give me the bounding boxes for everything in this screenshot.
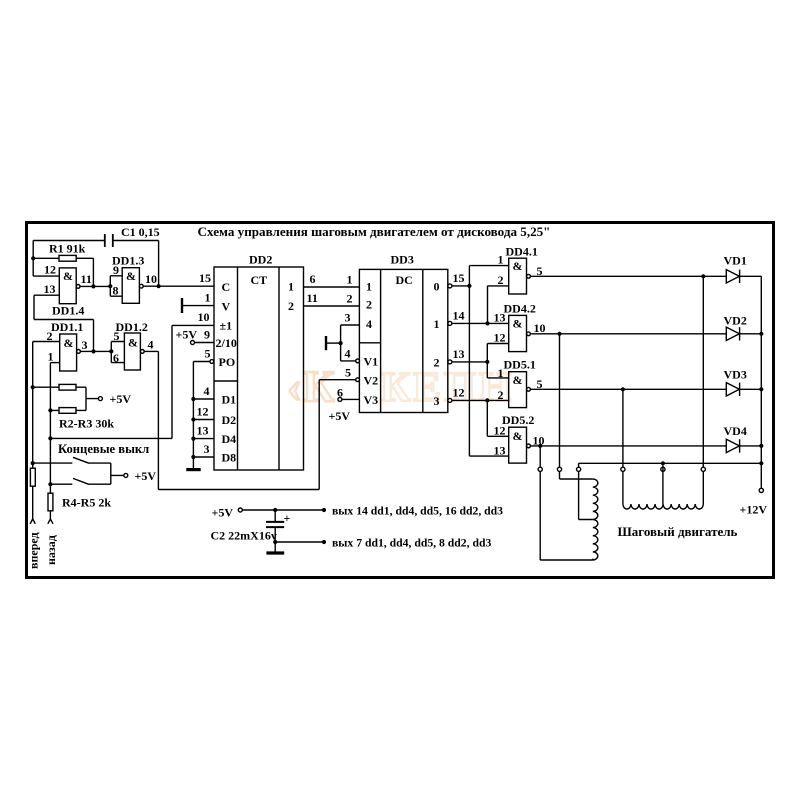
svg-text:DD1.1: DD1.1	[51, 320, 83, 334]
svg-text:3: 3	[345, 311, 351, 325]
DD1.3 output inversion circle	[139, 284, 143, 288]
resistor R2	[59, 384, 76, 390]
svg-text:6: 6	[310, 272, 316, 286]
terminal +5V C2	[238, 508, 242, 512]
svg-text:1: 1	[205, 291, 211, 305]
motor terminal 4	[621, 467, 625, 471]
node VD4 tap junction	[538, 444, 542, 448]
terminal +5V DD3 pin6	[338, 397, 342, 401]
DD4.1 output inversion circle	[527, 274, 531, 278]
wire winding B center lead	[662, 465, 664, 504]
decoder DD3 body	[359, 269, 447, 412]
wire DD3 pin3 bracket	[341, 325, 360, 343]
wire DD2 pin9 from +5V	[195, 342, 215, 344]
svg-text:12: 12	[453, 386, 465, 400]
svg-text:DD1.4: DD1.4	[52, 304, 84, 318]
motor terminal 5	[661, 467, 665, 471]
switch SA1 vpered	[33, 457, 111, 463]
svg-text:&: &	[63, 269, 73, 283]
svg-text:DD5.2: DD5.2	[502, 413, 534, 427]
svg-text:1: 1	[366, 280, 372, 294]
svg-text:2: 2	[498, 273, 504, 287]
wire VD4 tap down	[539, 446, 541, 467]
svg-text:VD1: VD1	[724, 254, 747, 268]
DD1.1 output inversion circle	[77, 350, 81, 354]
wire DD2 D8 pin3	[193, 456, 214, 458]
node DD1.1 out junction	[91, 349, 95, 353]
svg-text:+5V: +5V	[110, 392, 132, 406]
svg-text:+: +	[284, 511, 291, 525]
svg-text:D4: D4	[222, 432, 237, 446]
node bus VD4 junction	[759, 444, 763, 448]
svg-text:3: 3	[434, 394, 440, 408]
wire DD3 pin13 net C	[452, 344, 509, 378]
svg-text:4: 4	[366, 317, 372, 331]
svg-text:1: 1	[48, 350, 54, 364]
wire DD5.1 out to VD3	[530, 388, 726, 390]
DD5.2 output inversion circle	[527, 444, 531, 448]
svg-text:1: 1	[498, 253, 504, 267]
wire DD5.2 out to VD4	[530, 445, 726, 447]
node switch2 junction	[48, 482, 52, 486]
svg-text:вых 7 dd1, dd4, dd5, 8 dd2,: вых 7 dd1, dd4, dd5, 8 dd2, dd3	[332, 537, 491, 550]
svg-text:13: 13	[197, 424, 209, 438]
svg-text:9: 9	[204, 328, 210, 342]
svg-text:PO: PO	[219, 355, 236, 369]
svg-text:C: C	[222, 280, 231, 294]
svg-text:+12V: +12V	[740, 503, 768, 517]
svg-text:11: 11	[81, 272, 92, 286]
svg-text:VD3: VD3	[724, 368, 747, 382]
capacitor C1	[105, 234, 113, 247]
node D2 bus junction	[191, 417, 195, 421]
svg-text:5: 5	[205, 347, 211, 361]
wire DD2 D1 pin4	[193, 398, 214, 400]
op-amp DD1.3 body	[122, 268, 139, 304]
svg-text:14: 14	[453, 309, 465, 323]
op-amp DD4.1 body	[509, 258, 527, 294]
svg-text:+5V: +5V	[212, 506, 234, 520]
wire R1 left	[33, 257, 59, 259]
DD3 inner column lines	[381, 269, 423, 412]
diode VD4	[726, 439, 761, 452]
svg-text:R2-R3 30k: R2-R3 30k	[59, 417, 114, 431]
node net D junction	[485, 398, 489, 402]
op-amp DD1.4 body	[59, 268, 76, 304]
DD2 PO inversion circle	[210, 360, 214, 364]
wire winding B right lead	[702, 471, 704, 504]
resistor R4	[30, 468, 35, 486]
svg-text:15: 15	[453, 271, 465, 285]
DD3 output 2 inversion circle	[448, 360, 452, 364]
svg-text:6: 6	[337, 386, 343, 400]
wire C2 top stem	[274, 510, 276, 521]
wire DD1.2 input bracket pins 5 6	[111, 342, 124, 363]
node DD1.2 input junction	[109, 349, 113, 353]
wire DD2 out pin6 to DD3 pin1	[304, 286, 360, 288]
node net C junction	[485, 360, 489, 364]
svg-text:VD4: VD4	[724, 424, 747, 438]
svg-text:6: 6	[113, 351, 119, 365]
wire R2 R3 to +5V tap	[33, 387, 99, 410]
motor terminal 6	[701, 467, 705, 471]
svg-text:DD1.2: DD1.2	[116, 320, 148, 334]
svg-text:вых 14 dd1, dd4, dd5, 16 dd2,: вых 14 dd1, dd4, dd5, 16 dd2, dd3	[332, 505, 503, 518]
resistor R3	[59, 408, 76, 414]
node DD3 bracket junction	[339, 341, 343, 345]
node D1 bus junction	[191, 397, 195, 401]
svg-text:+5V: +5V	[329, 409, 351, 423]
wire nazad tap to plus-minus-1	[50, 325, 214, 438]
wire C2 bottom stem	[274, 528, 276, 552]
svg-text:5: 5	[345, 366, 351, 380]
DD1.2 output inversion circle	[140, 350, 144, 354]
svg-text:13: 13	[494, 311, 506, 325]
svg-text:D8: D8	[222, 451, 237, 465]
svg-text:13: 13	[44, 282, 56, 296]
svg-text:назад: назад	[44, 535, 58, 565]
wire winding A top lead	[560, 471, 593, 479]
svg-text:&: &	[128, 336, 138, 350]
svg-text:+5V: +5V	[135, 469, 157, 483]
ground bar DD2 bus	[186, 468, 200, 471]
node C2 bottom junction	[273, 540, 277, 544]
node net A junction	[467, 284, 471, 288]
resistor R1	[59, 255, 76, 261]
wire C1 top-left net	[33, 241, 158, 287]
svg-text:&: &	[126, 269, 136, 283]
op-amp DD5.2 body	[509, 427, 527, 463]
wire DD1.4 pin 13	[34, 295, 94, 351]
svg-text:15: 15	[199, 271, 211, 285]
wire DD4.2 out to VD2	[530, 333, 726, 335]
wire DD1.3 out pin 10 to DD2 C	[143, 285, 214, 287]
svg-text:R4-R5 2k: R4-R5 2k	[62, 496, 111, 510]
node D8 bus junction	[191, 455, 195, 459]
DD1.4 output inversion circle	[76, 285, 80, 289]
DD2 divider line	[214, 380, 238, 382]
svg-text:DD4.2: DD4.2	[504, 302, 536, 316]
svg-text:Концевые выкл: Концевые выкл	[58, 442, 149, 456]
svg-text:12: 12	[494, 331, 506, 345]
svg-text:V3: V3	[364, 393, 379, 407]
resistor R5	[48, 493, 53, 511]
common rail symbol at DD2 V	[181, 298, 183, 313]
wire +12V feed horizontal	[579, 463, 762, 467]
svg-text:DC: DC	[396, 273, 413, 287]
wire +12V right bus	[760, 276, 762, 488]
svg-text:4: 4	[148, 338, 154, 352]
node C1-R1 junction	[31, 256, 35, 260]
DD3 output 0 inversion circle	[448, 284, 452, 288]
svg-text:2: 2	[498, 388, 504, 402]
wire VD2 tap down	[559, 334, 561, 468]
wire DD1.1 pin 1	[50, 362, 59, 364]
node winding B center junction	[661, 461, 665, 465]
node switch1 junction	[31, 461, 35, 465]
svg-text:0: 0	[434, 280, 440, 294]
svg-text:1: 1	[288, 280, 294, 294]
svg-text:8: 8	[113, 284, 119, 298]
svg-text:5: 5	[537, 377, 543, 391]
wire DD1.2 out pin 4 down to V2 route	[144, 351, 158, 489]
svg-text:13: 13	[494, 444, 506, 458]
inductor winding B coil	[623, 504, 703, 509]
node bus VD3 junction	[759, 387, 763, 391]
node bus VD2 junction	[759, 332, 763, 336]
node R3 left junction	[48, 408, 52, 412]
svg-text:1: 1	[498, 366, 504, 380]
svg-text:C2 22mX16v: C2 22mX16v	[211, 529, 277, 543]
svg-text:&: &	[513, 317, 523, 331]
node D4 bus junction	[191, 437, 195, 441]
svg-text:DD4.1: DD4.1	[506, 245, 538, 259]
node nazad tap junction	[48, 436, 52, 440]
wire switches to +5V	[111, 463, 124, 484]
svg-text:CT: CT	[251, 273, 268, 287]
svg-text:R1 91k: R1 91k	[49, 242, 86, 256]
svg-text:5: 5	[114, 329, 120, 343]
svg-text:10: 10	[534, 321, 546, 335]
DD3 V2 inversion circle	[356, 378, 360, 382]
wire DD2 pin1 V	[183, 305, 214, 307]
DD3 V1 inversion circle	[356, 359, 360, 363]
svg-text:2: 2	[434, 356, 440, 370]
wire DD3 pin4 V1	[341, 343, 356, 361]
svg-text:2/10: 2/10	[216, 336, 237, 350]
svg-text:±1: ±1	[220, 319, 233, 333]
svg-text:1: 1	[434, 317, 440, 331]
svg-text:12: 12	[197, 405, 209, 419]
switch SA2 nazad	[50, 478, 110, 484]
node power rail end	[322, 508, 326, 512]
node clock-C1 junction	[157, 284, 161, 288]
terminal +5V switches	[124, 473, 128, 477]
wire DD1.4 pin 12	[33, 275, 59, 277]
wire common to bracket junction	[327, 342, 341, 344]
op-amp DD1.1 body	[60, 334, 77, 371]
DD3 output 1 inversion circle	[448, 321, 452, 325]
wire winding A bottom lead	[540, 471, 593, 560]
wire winding A center tap lead	[579, 471, 593, 519]
svg-text:2: 2	[288, 299, 294, 313]
wire DD3 pin14 net B	[452, 286, 509, 324]
svg-text:3: 3	[82, 338, 88, 352]
wire R1 right feedback	[76, 258, 93, 286]
svg-text:DD2: DD2	[249, 253, 272, 267]
wire DD1.1 pin 2	[33, 341, 60, 343]
watermark	[287, 362, 514, 411]
wire DD1.3 input bracket pins 9 8	[110, 276, 122, 296]
svg-text:&: &	[513, 373, 523, 387]
svg-text:3: 3	[204, 442, 210, 456]
wire nazad vertical line	[49, 363, 51, 519]
motor terminal 1	[538, 467, 542, 471]
svg-text:‹К: ‹К	[287, 362, 336, 411]
wire DD3 pin15 net A	[452, 266, 509, 457]
DD3 divider line	[359, 342, 380, 344]
arrow terminal vpered	[30, 519, 35, 524]
svg-text:2: 2	[366, 298, 372, 312]
svg-text:2: 2	[347, 292, 353, 306]
wire DD3 pin5 V2	[319, 379, 356, 381]
wire DD4.1 out to VD1	[530, 275, 726, 277]
wire VD3 tap down	[622, 389, 624, 467]
terminal +5V DD2 pin9	[191, 341, 195, 345]
diode VD1	[726, 270, 761, 283]
op-amp DD1.2 body	[124, 333, 140, 370]
node R1-out11 junction	[91, 284, 95, 288]
node bus +12V junction	[759, 461, 763, 465]
diode VD2	[726, 327, 761, 340]
wire DD3 pin6 V3	[342, 398, 360, 400]
wire vpered vertical line	[32, 342, 34, 520]
svg-text:V2: V2	[364, 374, 379, 388]
svg-text:2: 2	[47, 329, 53, 343]
wire +5V power rail	[242, 509, 324, 511]
wire DD1.1 out pin 3	[80, 350, 111, 352]
capacitor C2 plates	[266, 522, 284, 527]
node lower rail end	[322, 540, 326, 544]
op-amp DD4.2 body	[509, 315, 527, 351]
wire winding B left lead	[622, 471, 624, 504]
svg-text:&: &	[513, 429, 523, 443]
wire power pins lower rail	[275, 541, 324, 543]
svg-text:13: 13	[453, 347, 465, 361]
common rail symbol at DD3	[325, 336, 327, 350]
op-amp DD5.1 body	[509, 372, 527, 408]
node VD2 tap junction	[557, 332, 561, 336]
svg-text:&: &	[64, 336, 74, 350]
DD3 output 3 inversion circle	[448, 398, 452, 402]
ground bar C2	[266, 551, 284, 554]
svg-text:D2: D2	[222, 413, 237, 427]
svg-text:4: 4	[204, 384, 210, 398]
wire DD3 pin12 net D	[452, 400, 509, 436]
svg-text:11: 11	[307, 291, 318, 305]
wire DD2 D-bus vertical	[192, 362, 194, 469]
arrow terminal nazad	[48, 519, 53, 524]
svg-text:DD5.1: DD5.1	[504, 358, 536, 372]
svg-text:+5V: +5V	[176, 328, 198, 342]
svg-text:12: 12	[494, 424, 506, 438]
motor terminal 2	[557, 467, 561, 471]
terminal +12V	[759, 488, 763, 492]
svg-text:вперед: вперед	[27, 532, 41, 569]
svg-text:1: 1	[347, 273, 353, 287]
wire DD2 D2 pin12	[193, 419, 214, 421]
wire DD2 out pin11 to DD3 pin2	[304, 305, 360, 307]
node net B junction	[485, 321, 489, 325]
counter DD2 body	[214, 267, 304, 470]
svg-text:4: 4	[345, 347, 351, 361]
svg-text:9: 9	[113, 263, 119, 277]
node VD3 tap junction	[621, 387, 625, 391]
svg-text:VD2: VD2	[724, 314, 747, 328]
inductor winding A coil	[593, 479, 598, 560]
svg-text:DD3: DD3	[391, 253, 414, 267]
svg-text:10: 10	[145, 272, 157, 286]
wire DD2 D4 pin13	[193, 438, 214, 440]
wire VD1 tap down	[702, 276, 704, 467]
svg-text:КЕПН: КЕПН	[380, 365, 514, 411]
svg-text:D1: D1	[222, 393, 237, 407]
node R2 left junction	[31, 385, 35, 389]
node C2 top junction	[273, 508, 277, 512]
svg-text:10: 10	[198, 310, 210, 324]
DD5.1 output inversion circle	[527, 387, 531, 391]
svg-text:Схема управления шаговым двига: Схема управления шаговым двигателем от д…	[198, 224, 551, 239]
svg-text:C1 0,15: C1 0,15	[121, 225, 160, 239]
wire V2 route horizontal and up	[158, 380, 319, 490]
svg-text:V1: V1	[364, 355, 379, 369]
diode VD3	[726, 383, 761, 396]
DD2 inner column lines	[238, 267, 280, 470]
svg-text:10: 10	[533, 434, 545, 448]
wire DD2 PO pin5	[193, 361, 210, 363]
frame border	[27, 223, 774, 578]
motor terminal 3	[577, 467, 581, 471]
node DD1.3 input junction	[108, 284, 112, 288]
svg-text:12: 12	[44, 263, 56, 277]
terminal +5V R2R3	[98, 397, 102, 401]
wire DD1.4 out to DD1.3	[80, 285, 110, 287]
node VD1 tap junction	[701, 274, 705, 278]
svg-text:Шаговый двигатель: Шаговый двигатель	[618, 524, 738, 539]
svg-text:V: V	[222, 300, 231, 314]
DD4.2 output inversion circle	[527, 332, 531, 336]
svg-text:5: 5	[537, 264, 543, 278]
svg-text:&: &	[513, 259, 523, 273]
